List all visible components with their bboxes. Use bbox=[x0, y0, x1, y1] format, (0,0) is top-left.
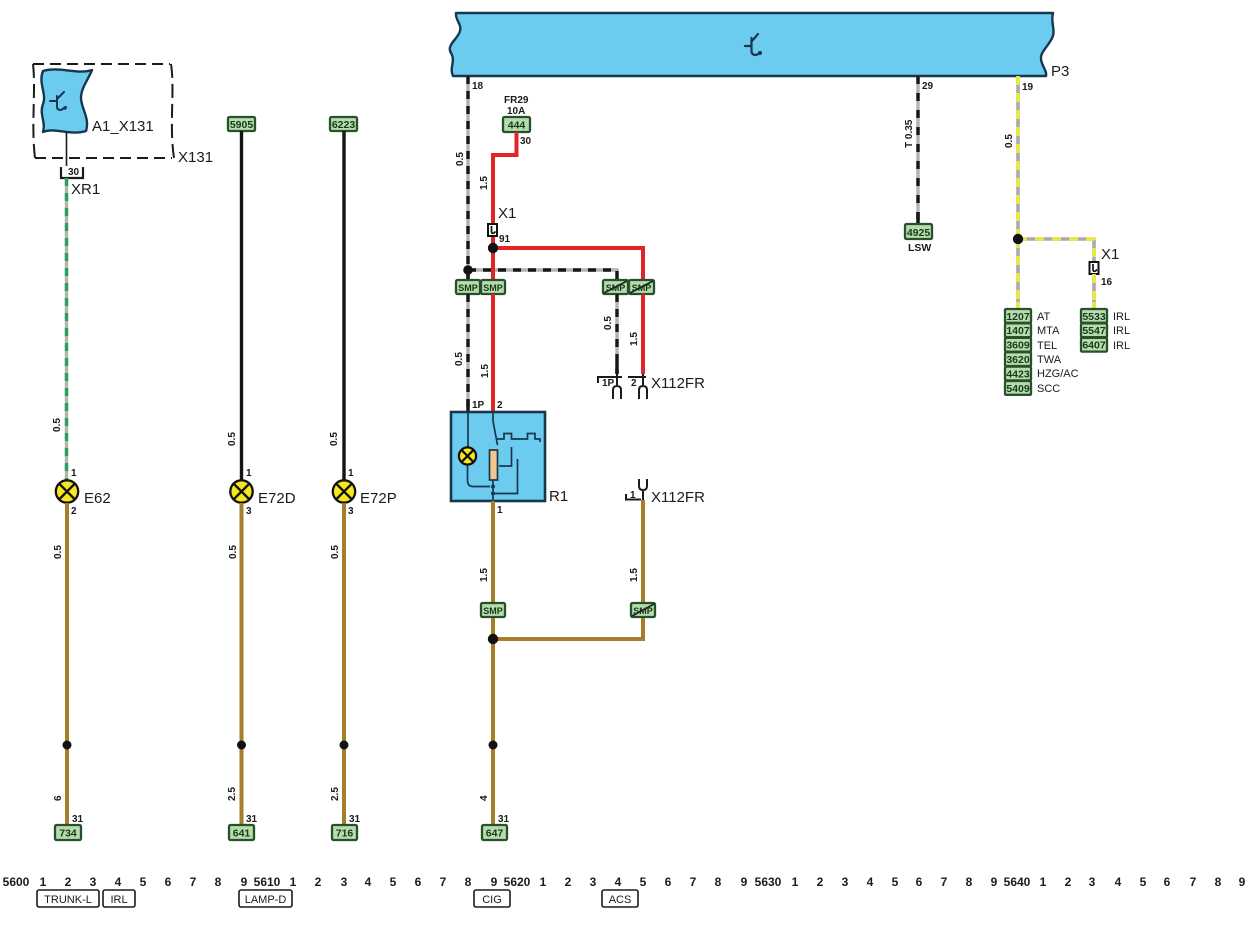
terminal 6223 bbox=[330, 117, 357, 131]
svg-text:4: 4 bbox=[1115, 875, 1122, 889]
svg-text:3: 3 bbox=[341, 875, 348, 889]
junction bbox=[63, 741, 72, 750]
svg-text:5: 5 bbox=[1140, 875, 1147, 889]
wire dashed SMP to X112FR pin 1P bbox=[615, 294, 618, 374]
svg-text:2: 2 bbox=[65, 875, 72, 889]
svg-text:29: 29 bbox=[922, 81, 934, 92]
svg-text:CIG: CIG bbox=[482, 894, 502, 906]
svg-text:X112FR: X112FR bbox=[651, 375, 705, 392]
svg-text:P3: P3 bbox=[1051, 63, 1069, 80]
svg-text:1.5: 1.5 bbox=[479, 568, 490, 582]
svg-text:0.5: 0.5 bbox=[329, 432, 340, 446]
coordinate ruler bbox=[3, 875, 1246, 889]
wire E72D to 641 (brown) bbox=[240, 503, 244, 825]
svg-text:3: 3 bbox=[1089, 875, 1096, 889]
svg-text:3: 3 bbox=[246, 506, 252, 517]
wire brown X112FR down bbox=[493, 500, 643, 639]
junction on dashed wire bbox=[463, 265, 473, 275]
svg-text:4: 4 bbox=[479, 795, 490, 801]
svg-text:5905: 5905 bbox=[230, 119, 254, 131]
R1 internal lamp bbox=[459, 447, 476, 464]
svg-text:6: 6 bbox=[415, 875, 422, 889]
svg-text:SCC: SCC bbox=[1037, 383, 1060, 395]
wire tip 4925 bbox=[916, 212, 919, 224]
svg-text:0.5: 0.5 bbox=[330, 545, 341, 559]
svg-text:3: 3 bbox=[348, 506, 354, 517]
wire red SMP to R1 pin 2 bbox=[491, 294, 495, 412]
svg-text:641: 641 bbox=[233, 828, 251, 840]
svg-text:1.5: 1.5 bbox=[479, 176, 490, 190]
wire yellow junction down to 1207 bbox=[1016, 239, 1020, 309]
wire red SMP to X112FR pin 2 bbox=[641, 294, 645, 374]
connector XR1 pin 30 bracket bbox=[61, 167, 83, 178]
svg-text:IRL: IRL bbox=[1113, 325, 1130, 337]
svg-text:31: 31 bbox=[246, 814, 258, 825]
svg-text:1: 1 bbox=[71, 468, 77, 479]
svg-text:3: 3 bbox=[590, 875, 597, 889]
svg-text:IRL: IRL bbox=[1113, 340, 1130, 352]
wire pin29 down (grey/black dashed) bbox=[916, 76, 919, 224]
wire pin19 down (grey/yellow dashed) bbox=[1016, 76, 1020, 239]
svg-text:7: 7 bbox=[440, 875, 447, 889]
wire dashed SMP to R1 pin 1P bbox=[466, 294, 469, 412]
wire 444 to X1 (red) bbox=[493, 132, 517, 248]
svg-text:1: 1 bbox=[540, 875, 547, 889]
wire blob to connector bbox=[66, 132, 68, 166]
svg-text:2.5: 2.5 bbox=[330, 787, 341, 801]
svg-text:3: 3 bbox=[90, 875, 97, 889]
svg-text:LSW: LSW bbox=[908, 242, 931, 254]
svg-text:1.5: 1.5 bbox=[629, 332, 640, 346]
terminal 647 bbox=[482, 825, 507, 840]
svg-text:6407: 6407 bbox=[1082, 340, 1106, 352]
svg-text:6: 6 bbox=[665, 875, 672, 889]
svg-text:31: 31 bbox=[498, 814, 510, 825]
svg-text:31: 31 bbox=[349, 814, 361, 825]
svg-text:7: 7 bbox=[1190, 875, 1197, 889]
svg-text:444: 444 bbox=[508, 120, 526, 132]
relay R1 bbox=[451, 412, 545, 501]
wire horizontal dashed to X112FR branch bbox=[468, 270, 617, 280]
svg-text:5547: 5547 bbox=[1082, 325, 1106, 337]
svg-text:7: 7 bbox=[690, 875, 697, 889]
svg-text:X1: X1 bbox=[1101, 246, 1119, 263]
terminal 641 bbox=[229, 825, 254, 840]
svg-text:T 0.35: T 0.35 bbox=[904, 119, 915, 148]
svg-text:2: 2 bbox=[817, 875, 824, 889]
wire tip 1207 bbox=[1016, 302, 1020, 309]
svg-text:LAMP-D: LAMP-D bbox=[245, 894, 287, 906]
wire yellow horizontal to X1 connector bbox=[1018, 239, 1094, 262]
junction yellow bbox=[1013, 234, 1023, 244]
svg-text:1.5: 1.5 bbox=[629, 568, 640, 582]
svg-text:3620: 3620 bbox=[1006, 354, 1030, 366]
svg-text:1407: 1407 bbox=[1006, 325, 1030, 337]
svg-text:31: 31 bbox=[72, 814, 84, 825]
svg-text:1: 1 bbox=[246, 468, 252, 479]
svg-text:7: 7 bbox=[190, 875, 197, 889]
svg-text:R1: R1 bbox=[549, 488, 568, 505]
svg-text:2: 2 bbox=[565, 875, 572, 889]
bus bar P3 bbox=[450, 13, 1054, 76]
svg-text:18: 18 bbox=[472, 81, 484, 92]
svg-text:1: 1 bbox=[348, 468, 354, 479]
svg-text:MTA: MTA bbox=[1037, 325, 1060, 337]
svg-text:A1_X131: A1_X131 bbox=[92, 118, 154, 135]
terminal 5905 bbox=[228, 117, 255, 131]
svg-text:4: 4 bbox=[615, 875, 622, 889]
terminal 4925 bbox=[905, 224, 932, 239]
svg-text:2: 2 bbox=[497, 400, 503, 411]
terminal 444 bbox=[503, 117, 530, 132]
svg-text:ACS: ACS bbox=[609, 894, 632, 906]
junction bbox=[237, 741, 246, 750]
svg-text:5610: 5610 bbox=[254, 875, 281, 889]
R1 internal resistor bbox=[490, 450, 498, 480]
svg-text:8: 8 bbox=[465, 875, 472, 889]
svg-text:9: 9 bbox=[491, 875, 498, 889]
svg-text:9: 9 bbox=[241, 875, 248, 889]
box X131 dashed outline bbox=[33, 64, 174, 158]
svg-text:10A: 10A bbox=[507, 106, 525, 117]
svg-text:4423: 4423 bbox=[1006, 368, 1030, 380]
svg-text:5409: 5409 bbox=[1006, 383, 1030, 395]
svg-text:716: 716 bbox=[336, 828, 354, 840]
svg-text:16: 16 bbox=[1101, 277, 1113, 288]
lamp E62 bbox=[56, 480, 78, 502]
svg-text:6: 6 bbox=[1164, 875, 1171, 889]
svg-text:5: 5 bbox=[892, 875, 899, 889]
splice SMP single right (crossed) bbox=[631, 603, 655, 617]
svg-text:647: 647 bbox=[486, 828, 504, 840]
svg-text:2: 2 bbox=[1065, 875, 1072, 889]
svg-text:6223: 6223 bbox=[332, 119, 356, 131]
svg-text:HZG/AC: HZG/AC bbox=[1037, 368, 1079, 380]
wire red horizontal branch bbox=[493, 248, 643, 280]
svg-text:2.5: 2.5 bbox=[227, 787, 238, 801]
svg-text:SMP: SMP bbox=[483, 283, 503, 293]
svg-text:2: 2 bbox=[71, 506, 77, 517]
svg-text:5620: 5620 bbox=[504, 875, 531, 889]
svg-text:2: 2 bbox=[631, 378, 637, 389]
svg-text:30: 30 bbox=[68, 167, 80, 178]
svg-text:9: 9 bbox=[1239, 875, 1246, 889]
svg-text:SMP: SMP bbox=[458, 283, 478, 293]
connector X1 pin 16 bbox=[1090, 262, 1099, 274]
splice SMP pair right (crossed) bbox=[603, 280, 628, 294]
svg-text:9: 9 bbox=[991, 875, 998, 889]
svg-text:0.5: 0.5 bbox=[454, 352, 465, 366]
wire red down to SMP bbox=[491, 248, 495, 280]
svg-text:3: 3 bbox=[842, 875, 849, 889]
svg-text:8: 8 bbox=[966, 875, 973, 889]
svg-text:E72P: E72P bbox=[360, 490, 397, 507]
ruler tag ACS bbox=[602, 890, 638, 907]
svg-text:X1: X1 bbox=[498, 205, 516, 222]
splice SMP single left bbox=[481, 603, 505, 617]
wire 5905 to E72D (black) bbox=[240, 131, 243, 480]
wire pin18 down (grey/black dashed) bbox=[466, 76, 469, 280]
svg-text:1: 1 bbox=[497, 505, 503, 516]
svg-text:IRL: IRL bbox=[110, 894, 127, 906]
wire tip to R1 bbox=[466, 400, 469, 412]
wire E72P to 716 (brown) bbox=[342, 503, 346, 825]
svg-text:0.5: 0.5 bbox=[53, 545, 64, 559]
ruler tag IRL bbox=[103, 890, 135, 907]
svg-text:0.5: 0.5 bbox=[1004, 134, 1015, 148]
ruler tag TRUNK-L bbox=[37, 890, 99, 907]
svg-text:734: 734 bbox=[59, 828, 77, 840]
svg-text:1P: 1P bbox=[602, 378, 615, 389]
svg-text:5533: 5533 bbox=[1082, 311, 1106, 323]
svg-text:TRUNK-L: TRUNK-L bbox=[44, 894, 92, 906]
svg-text:TEL: TEL bbox=[1037, 340, 1057, 352]
wire tip to X112FR bbox=[615, 362, 618, 374]
svg-text:5: 5 bbox=[140, 875, 147, 889]
wire brown R1 pin1 down bbox=[491, 501, 495, 825]
svg-text:8: 8 bbox=[715, 875, 722, 889]
svg-text:AT: AT bbox=[1037, 311, 1051, 323]
svg-text:0.5: 0.5 bbox=[603, 316, 614, 330]
svg-text:3609: 3609 bbox=[1006, 340, 1030, 352]
junction bbox=[488, 634, 498, 644]
bus bar glyph bbox=[745, 34, 761, 55]
lamp E72D bbox=[230, 480, 252, 502]
svg-text:6: 6 bbox=[916, 875, 923, 889]
svg-text:91: 91 bbox=[499, 234, 511, 245]
svg-text:XR1: XR1 bbox=[71, 181, 100, 198]
svg-text:6: 6 bbox=[165, 875, 172, 889]
svg-text:4: 4 bbox=[867, 875, 874, 889]
svg-text:7: 7 bbox=[941, 875, 948, 889]
junction red bbox=[488, 243, 498, 253]
svg-text:0.5: 0.5 bbox=[227, 432, 238, 446]
svg-text:1: 1 bbox=[1040, 875, 1047, 889]
lamp E72P bbox=[333, 480, 355, 502]
svg-text:1P: 1P bbox=[472, 400, 485, 411]
junction lower bbox=[489, 741, 498, 750]
svg-text:4925: 4925 bbox=[907, 227, 931, 239]
component A1_X131 blue blob bbox=[41, 69, 92, 132]
ruler tag LAMP-D bbox=[239, 890, 292, 907]
svg-text:0.5: 0.5 bbox=[228, 545, 239, 559]
svg-text:X112FR: X112FR bbox=[651, 489, 705, 506]
svg-text:30: 30 bbox=[520, 136, 532, 147]
svg-text:5640: 5640 bbox=[1004, 875, 1031, 889]
terminal 734 bbox=[55, 825, 81, 840]
svg-text:1: 1 bbox=[40, 875, 47, 889]
svg-text:FR29: FR29 bbox=[504, 95, 529, 106]
wire E62 to 734 (brown) bbox=[65, 503, 69, 825]
connector X112FR upper pin 1P bbox=[598, 374, 622, 399]
svg-text:4: 4 bbox=[115, 875, 122, 889]
svg-text:5: 5 bbox=[640, 875, 647, 889]
svg-text:8: 8 bbox=[1215, 875, 1222, 889]
svg-text:1: 1 bbox=[630, 490, 636, 501]
svg-text:6: 6 bbox=[53, 795, 64, 801]
terminal 716 bbox=[332, 825, 357, 840]
svg-text:X131: X131 bbox=[178, 149, 213, 166]
svg-text:IRL: IRL bbox=[1113, 311, 1130, 323]
svg-text:8: 8 bbox=[215, 875, 222, 889]
svg-text:SMP: SMP bbox=[483, 606, 503, 616]
connector X112FR upper pin 2 bbox=[628, 374, 647, 399]
svg-text:9: 9 bbox=[741, 875, 748, 889]
svg-text:5630: 5630 bbox=[755, 875, 782, 889]
wire tip to SMP bbox=[466, 270, 469, 280]
svg-text:19: 19 bbox=[1022, 82, 1034, 93]
wire 6223 to E72P (black) bbox=[342, 131, 345, 480]
connector X112FR lower pin 1 bbox=[626, 479, 647, 500]
junction bbox=[340, 741, 349, 750]
svg-text:1207: 1207 bbox=[1006, 311, 1030, 323]
svg-text:1: 1 bbox=[290, 875, 297, 889]
svg-text:TWA: TWA bbox=[1037, 354, 1062, 366]
svg-text:5600: 5600 bbox=[3, 875, 30, 889]
blob glyph bbox=[50, 92, 66, 110]
svg-text:4: 4 bbox=[365, 875, 372, 889]
wire XR1 to E62 (grey/green dashed) bbox=[65, 178, 68, 480]
svg-text:1.5: 1.5 bbox=[480, 364, 491, 378]
wire tip 5533 bbox=[1092, 302, 1096, 309]
connector X1 pin 91 bbox=[488, 224, 497, 236]
svg-text:1: 1 bbox=[792, 875, 799, 889]
svg-text:2: 2 bbox=[315, 875, 322, 889]
svg-text:0.5: 0.5 bbox=[52, 418, 63, 432]
terminal column left bbox=[1005, 309, 1031, 323]
splice SMP pair left bbox=[456, 280, 480, 294]
terminal column right bbox=[1081, 309, 1107, 323]
svg-text:E72D: E72D bbox=[258, 490, 296, 507]
wire yellow connector to 5533 bbox=[1092, 274, 1096, 309]
svg-text:0.5: 0.5 bbox=[455, 152, 466, 166]
ruler tag CIG bbox=[474, 890, 510, 907]
svg-text:5: 5 bbox=[390, 875, 397, 889]
svg-text:E62: E62 bbox=[84, 490, 111, 507]
